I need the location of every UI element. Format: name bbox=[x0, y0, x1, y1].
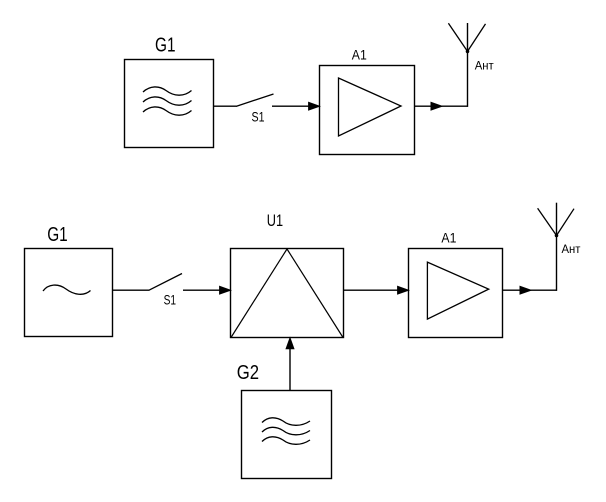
wire G1 to switch S1 (bottom) bbox=[113, 289, 150, 291]
antenna junction dot (bottom) bbox=[555, 234, 559, 238]
antenna label Ант (bottom) bbox=[562, 244, 582, 256]
arrowhead into U1 bbox=[220, 286, 231, 294]
svg-text:A1: A1 bbox=[352, 46, 367, 62]
G1 sine wave symbol bbox=[43, 285, 91, 294]
amplifier A1 box (top) bbox=[320, 66, 415, 155]
arrowhead into A1 (top) bbox=[309, 102, 320, 110]
wire A1 to antenna (bottom) bbox=[503, 289, 557, 291]
G1 noise wave 3 bbox=[143, 107, 192, 115]
antenna mast wire (bottom) bbox=[556, 203, 558, 291]
switch S1 label (bottom) bbox=[164, 292, 177, 308]
svg-text:U1: U1 bbox=[267, 212, 283, 230]
switch S1 label (top) bbox=[252, 109, 265, 125]
G2 noise wave 1 bbox=[262, 418, 310, 426]
svg-text:S1: S1 bbox=[252, 109, 265, 125]
G1 noise wave 1 bbox=[143, 87, 192, 95]
generator G1 box (bottom) bbox=[25, 249, 113, 337]
mixer U1 triangle left side bbox=[231, 249, 287, 337]
svg-text:S1: S1 bbox=[164, 292, 177, 308]
svg-text:Ант: Ант bbox=[562, 244, 582, 256]
arrowhead on wire to antenna (bottom) bbox=[520, 286, 531, 294]
antenna right arm (bottom) bbox=[557, 209, 575, 236]
mixer U1 triangle right side bbox=[287, 249, 343, 337]
generator G2 box bbox=[242, 391, 332, 479]
arrowhead on wire to antenna (top) bbox=[431, 102, 442, 110]
wire U1 to A1 (bottom) bbox=[344, 289, 399, 291]
G2 noise wave 3 bbox=[262, 437, 310, 445]
amplifier A1 label (top) bbox=[352, 46, 367, 62]
svg-text:A1: A1 bbox=[441, 230, 456, 246]
mixer U1 label bbox=[267, 212, 283, 230]
antenna junction dot (top) bbox=[466, 50, 470, 54]
amplifier A1 label (bottom) bbox=[441, 230, 456, 246]
antenna left arm (bottom) bbox=[538, 208, 557, 235]
amplifier A1 triangle (bottom) bbox=[427, 262, 488, 319]
wire S1 to U1 (bottom) bbox=[183, 289, 220, 291]
arrowhead into U1 from G2 bbox=[286, 338, 294, 349]
svg-text:Ант: Ант bbox=[475, 61, 495, 73]
generator G2 label bbox=[237, 362, 259, 384]
svg-text:G2: G2 bbox=[237, 362, 259, 384]
wire G1 to switch S1 (top) bbox=[214, 105, 238, 107]
amplifier A1 triangle (top) bbox=[339, 78, 402, 136]
G2 noise wave 2 bbox=[262, 427, 310, 435]
svg-text:G1: G1 bbox=[47, 224, 67, 246]
antenna mast wire (top) bbox=[467, 23, 469, 107]
G1 noise wave 2 bbox=[143, 97, 192, 105]
wire A1 to antenna (top) bbox=[415, 105, 468, 107]
antenna label Ант (top) bbox=[475, 61, 495, 73]
generator G1 label (bottom) bbox=[47, 224, 67, 246]
arrowhead into A1 (bottom) bbox=[398, 286, 409, 294]
switch S1 blade (top) bbox=[237, 94, 274, 106]
amplifier A1 box (bottom) bbox=[409, 249, 503, 338]
svg-text:G1: G1 bbox=[155, 35, 176, 57]
generator G1 label (top) bbox=[155, 35, 176, 57]
mixer U1 box bbox=[231, 249, 344, 338]
wire S1 to A1 (top) bbox=[272, 105, 310, 107]
switch S1 blade (bottom) bbox=[149, 274, 182, 291]
antenna left arm (top) bbox=[448, 23, 467, 51]
wire G2 to U1 bbox=[289, 348, 291, 391]
generator G1 box (top) bbox=[125, 60, 214, 148]
antenna right arm (top) bbox=[468, 24, 486, 52]
